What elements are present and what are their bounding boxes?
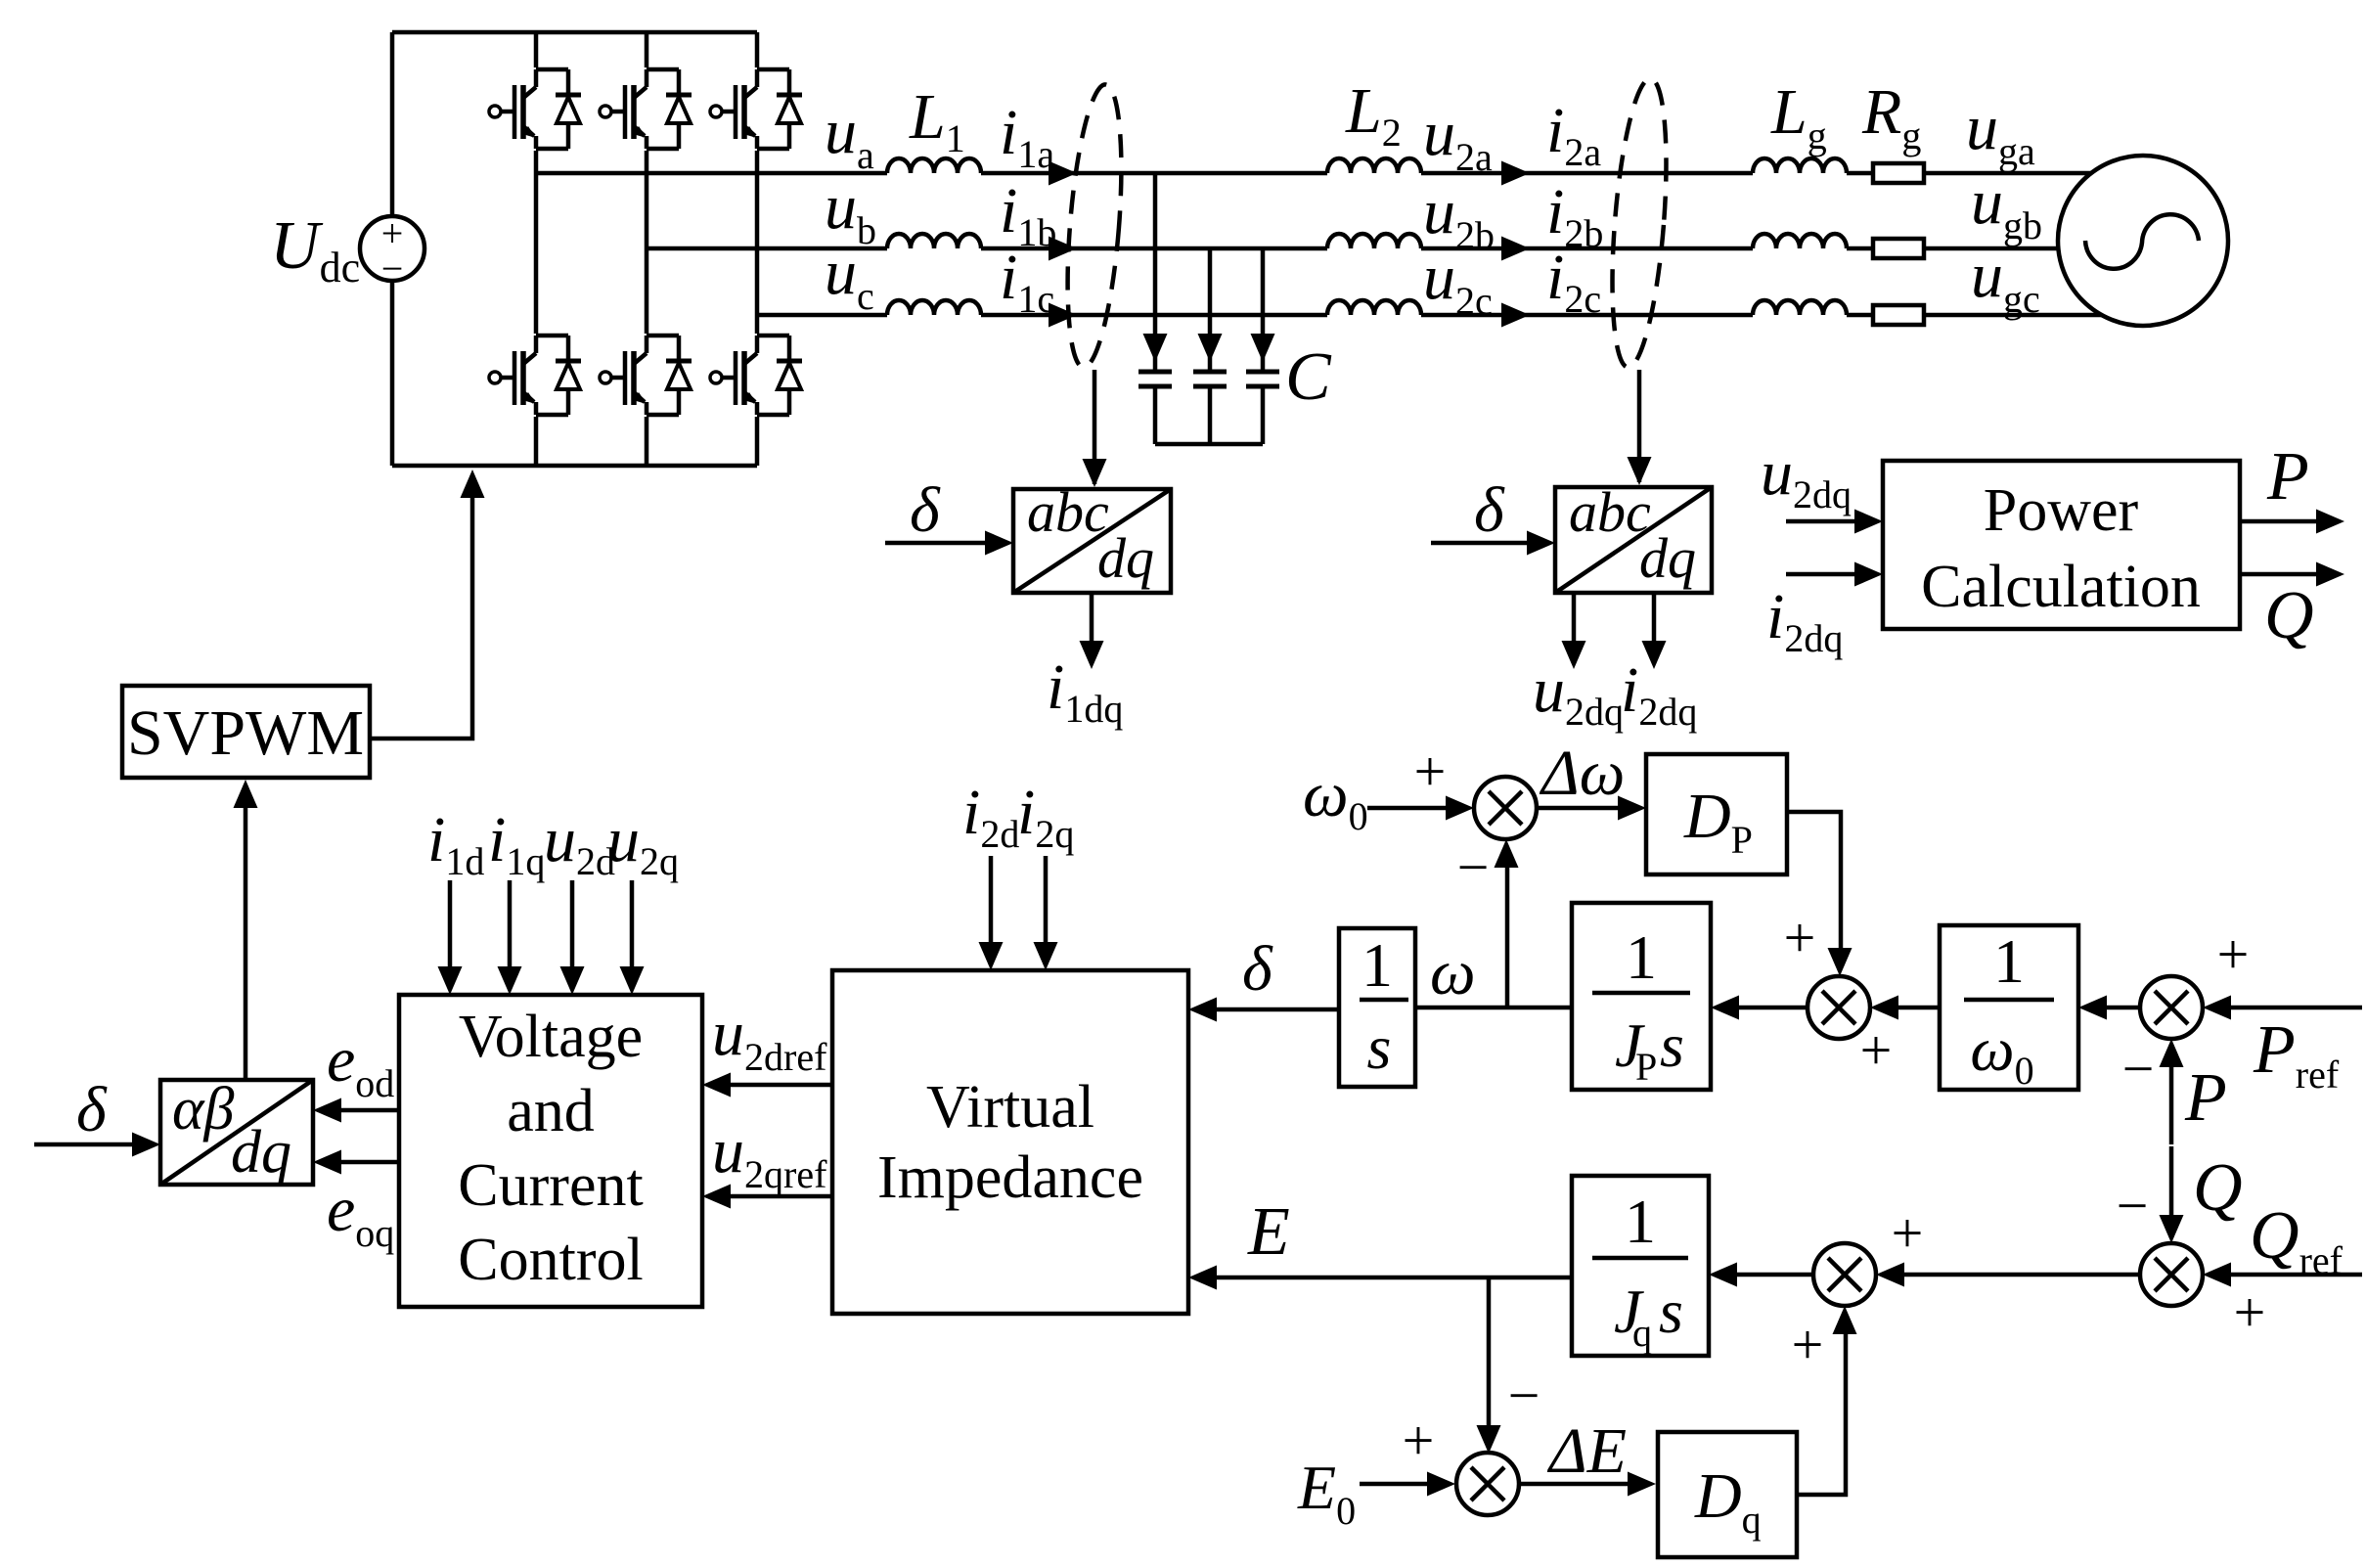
wire: u2q into VCC xyxy=(630,880,635,970)
block: Virtual Impedance xyxy=(832,970,1188,1314)
wire: DC bus bottom rail xyxy=(392,464,757,469)
wire: abc/dq 2 output u2dq xyxy=(1572,593,1577,663)
inductor L2 phase c xyxy=(1327,300,1421,315)
summing junction 1 (omega) xyxy=(1474,777,1537,839)
svg-text:+: + xyxy=(1860,1018,1893,1082)
wire: probe 2 tail xyxy=(1637,370,1642,482)
arrow i2dq into power calc xyxy=(1854,562,1883,587)
arrow omega0 into sum1 xyxy=(1446,796,1474,821)
wire: i1d into VCC xyxy=(448,880,453,970)
arrow i2b xyxy=(1501,237,1530,261)
arrow DP into sum2 xyxy=(1828,948,1853,976)
inductor Lg phase b xyxy=(1753,234,1847,248)
svg-text:+: + xyxy=(1403,1409,1435,1472)
wire: i2d into VI xyxy=(989,856,994,945)
svg-text:−: − xyxy=(2122,1037,2155,1100)
svg-text:+: + xyxy=(1784,906,1816,969)
arrow eoq xyxy=(313,1150,341,1175)
wire: sum4 to sum5 xyxy=(1901,1273,2140,1277)
block: Power Calculation xyxy=(1883,461,2240,629)
svg-text:dq: dq xyxy=(1639,526,1696,590)
wire: phase a line (L2 to Lg) xyxy=(1421,171,1753,176)
wire: DC bus top rail xyxy=(392,30,757,35)
svg-text:Voltage: Voltage xyxy=(459,1004,643,1070)
transistor S1 (top, leg a) with antiparallel diode xyxy=(489,67,581,151)
arrow i2a xyxy=(1501,161,1530,186)
inductor L1 phase b xyxy=(887,234,981,248)
wire: Q output xyxy=(2240,572,2319,577)
grid voltage source circle xyxy=(2058,156,2228,326)
transistor S3 (top, leg b) with antiparallel diode xyxy=(600,67,692,151)
svg-text:ΔE: ΔE xyxy=(1546,1415,1627,1487)
svg-text:δ: δ xyxy=(76,1074,108,1145)
arrow E into VI xyxy=(1188,1266,1217,1290)
wire: sum5 to 1/Jqs xyxy=(1734,1273,1813,1277)
wire: delta into abc/dq 2 xyxy=(1431,541,1530,546)
arrow Pref into sum3 xyxy=(2203,996,2231,1020)
arrow i2q xyxy=(1034,942,1058,970)
arrow delta into alpha-beta/dq xyxy=(132,1133,160,1157)
svg-text:Virtual: Virtual xyxy=(926,1074,1094,1141)
inductor L2 phase b xyxy=(1327,234,1421,248)
arrow probe 2 into abc/dq xyxy=(1628,457,1652,485)
wire: abc/dq 2 output i2dq xyxy=(1652,593,1657,663)
summing junction 2 xyxy=(1808,976,1870,1039)
svg-text:δ: δ xyxy=(1242,933,1273,1005)
inductor L1 phase a xyxy=(887,158,981,173)
wire: abc/dq 1 output xyxy=(1090,593,1094,663)
wire: i1q into VCC xyxy=(508,880,513,970)
arrow i1q xyxy=(498,966,522,995)
svg-text:P: P xyxy=(1635,1045,1657,1089)
wire: Q down into sum4 xyxy=(2169,1146,2174,1218)
arrow Q output xyxy=(2316,562,2344,587)
wire: probe 1 tail xyxy=(1093,370,1097,484)
arrow into Dq xyxy=(1628,1472,1656,1497)
wire: u2qref from VI to VCC xyxy=(728,1194,832,1199)
svg-text:Q: Q xyxy=(2193,1150,2243,1226)
arrow u2dref xyxy=(702,1073,731,1098)
svg-text:dq: dq xyxy=(231,1119,291,1186)
wire: Dq output up to sum5 xyxy=(1797,1331,1846,1495)
arrow abc/dq 2 output u2dq xyxy=(1562,641,1586,669)
arrow into 1/Jqs xyxy=(1709,1263,1737,1287)
svg-text:P: P xyxy=(2266,439,2309,515)
wire: capacitor branch a vertical xyxy=(1153,173,1158,371)
arrow i1d xyxy=(438,966,463,995)
svg-text:dq: dq xyxy=(1097,526,1154,590)
wire: i2q into VI xyxy=(1044,856,1049,945)
wire: u2dq into power calc xyxy=(1786,519,1857,524)
wire: Pref into sum3 xyxy=(2228,1006,2362,1010)
arrow i1b xyxy=(1049,237,1077,261)
svg-text:Current: Current xyxy=(458,1152,643,1219)
wire: eoq from VCC to alpha-beta/dq xyxy=(338,1160,399,1165)
arrow 1/omega0 into sum2 xyxy=(1870,996,1898,1020)
svg-text:q: q xyxy=(1632,1311,1652,1355)
alpha-beta/dq transform block xyxy=(160,1076,313,1186)
measurement ellipse 1 (dashed) xyxy=(1059,82,1131,369)
wire: i2dq into power calc xyxy=(1786,572,1857,577)
block: SVPWM xyxy=(122,686,370,778)
block 1/Jqs xyxy=(1572,1176,1709,1356)
wire: DC left rail lower xyxy=(390,281,395,466)
wire: inverter leg a xyxy=(534,32,539,466)
arrow u2q xyxy=(620,966,645,995)
arrow i2d xyxy=(979,942,1004,970)
wire: sum6 to Dq xyxy=(1519,1482,1632,1487)
capacitor C phase a xyxy=(1138,372,1172,444)
block Dq xyxy=(1658,1432,1797,1557)
wire: phase b line (L2 to Lg) xyxy=(1421,246,1753,251)
wire: omega line 1/JPs to 1/s xyxy=(1415,1006,1572,1010)
abc/dq transform block 2 xyxy=(1555,480,1712,593)
arrow sum4 into sum5 xyxy=(1876,1263,1904,1287)
arrow u2dq into power calc xyxy=(1854,510,1883,534)
wire: phase a line (L1 to L2) xyxy=(981,171,1327,176)
svg-text:ω: ω xyxy=(1430,937,1476,1008)
block: Voltage and Current Control xyxy=(399,995,702,1307)
arrow abc/dq 2 output i2dq xyxy=(1642,641,1667,669)
svg-text:δ: δ xyxy=(910,474,941,546)
block 1/JPs xyxy=(1572,903,1711,1090)
arrow i1a xyxy=(1049,161,1077,186)
resistor Rg phase b xyxy=(1873,239,1924,258)
wire: P up into sum3 xyxy=(2169,1064,2174,1144)
arrow delta into VI xyxy=(1188,998,1217,1022)
transistor S4 (bottom, leg a) with antiparallel diode xyxy=(489,334,581,417)
block 1/omega0 xyxy=(1940,925,2078,1093)
wire: phase c line (L2 to Lg) xyxy=(1421,313,1753,318)
abc/dq transform block 1 xyxy=(1013,480,1171,593)
wire: capacitor branch b vertical xyxy=(1208,248,1213,371)
wire: u2dref from VI to VCC xyxy=(728,1083,832,1088)
svg-text:Calculation: Calculation xyxy=(1921,554,2201,620)
inductor Lg phase c xyxy=(1753,300,1847,315)
wire: SVPWM output to bridge xyxy=(370,491,472,739)
arrow Q into sum4 xyxy=(2160,1215,2184,1243)
resistor Rg phase a xyxy=(1873,163,1924,183)
inductor L2 phase a xyxy=(1327,158,1421,173)
svg-text:αβ: αβ xyxy=(172,1076,235,1142)
inductor L1 phase c xyxy=(887,300,981,315)
wire: capacitor common bus xyxy=(1155,442,1263,447)
svg-text:+: + xyxy=(1414,739,1447,803)
resistor Rg phase c xyxy=(1873,305,1924,325)
svg-text:+: + xyxy=(2217,922,2250,986)
svg-text:+: + xyxy=(2234,1280,2266,1344)
svg-text:C: C xyxy=(1285,339,1332,415)
wire: inverter leg b xyxy=(645,32,649,466)
summing junction 5 xyxy=(1813,1243,1876,1306)
wire: phase b line (inverter to L1) xyxy=(647,246,887,251)
arrow i2c xyxy=(1501,303,1530,328)
svg-text:E: E xyxy=(1247,1194,1290,1270)
wire: phase a line (Lg to grid) xyxy=(1847,171,2093,176)
wire: omega feedback up to sum1 xyxy=(1505,865,1510,1008)
svg-text:SVPWM: SVPWM xyxy=(127,697,364,769)
svg-text:Δω: Δω xyxy=(1539,738,1625,809)
svg-text:Impedance: Impedance xyxy=(877,1144,1143,1211)
wire: sum1 to DP xyxy=(1537,806,1621,811)
wire: phase c line (Lg to grid) xyxy=(1847,313,2103,318)
wire: E from 1/Jqs to VI xyxy=(1214,1276,1572,1280)
wire: sum2 to 1/JPs xyxy=(1736,1006,1808,1010)
wire: capacitor branch c vertical xyxy=(1261,248,1266,371)
capacitor C phase b xyxy=(1193,372,1227,444)
summing junction 6 (E0) xyxy=(1456,1453,1519,1515)
svg-text:−: − xyxy=(381,246,404,291)
wire: delta from 1/s to VI xyxy=(1214,1008,1339,1012)
svg-text:−: − xyxy=(1508,1364,1540,1427)
transistor S2 (bottom, leg c) with antiparallel diode xyxy=(710,334,802,417)
wire: P output xyxy=(2240,519,2319,524)
svg-text:Power: Power xyxy=(1984,477,2139,544)
arrow E0 into sum6 xyxy=(1427,1472,1455,1497)
arrow into 1/JPs xyxy=(1711,996,1739,1020)
arrow probe 1 into abc/dq xyxy=(1083,459,1107,487)
svg-text:s: s xyxy=(1659,1277,1683,1346)
arrow i1c xyxy=(1049,303,1077,328)
summing junction 3 (P) xyxy=(2140,976,2203,1039)
svg-text:+: + xyxy=(1892,1201,1924,1265)
svg-text:1: 1 xyxy=(1993,926,2025,996)
inductor Lg phase a xyxy=(1753,158,1847,173)
wire: 1/omega0 to sum2 xyxy=(1896,1006,1940,1010)
wire: sum3 to 1/omega0 xyxy=(2104,1006,2140,1010)
arrow E feedback into sum6 xyxy=(1477,1425,1501,1454)
wire: phase a line (inverter to L1) xyxy=(536,171,887,176)
wire: phase b line (Lg to grid) xyxy=(1847,246,2060,251)
wire: delta into abc/dq 1 xyxy=(885,541,988,546)
wire: u2d into VCC xyxy=(570,880,575,970)
arrow Dq into sum5 xyxy=(1833,1306,1857,1334)
arrow u2qref xyxy=(702,1185,731,1209)
wire: omega0 into sum1 xyxy=(1367,806,1449,811)
svg-text:1: 1 xyxy=(1362,930,1393,1000)
svg-text:1: 1 xyxy=(1626,922,1657,992)
wire: phase c line (inverter to L1) xyxy=(757,313,887,318)
block 1/s xyxy=(1339,928,1415,1087)
summing junction 4 (Q) xyxy=(2140,1243,2203,1306)
arrow into SVPWM bottom xyxy=(234,780,258,808)
wire: E feedback down to sum6 xyxy=(1487,1277,1492,1428)
wire: Qref into sum4 xyxy=(2228,1273,2362,1277)
wire: alpha-beta/dq to SVPWM xyxy=(244,802,248,1080)
wire: delta into alpha-beta/dq xyxy=(34,1142,135,1147)
wire: inverter leg c xyxy=(755,32,760,466)
DC voltage source Udc circle xyxy=(360,211,424,291)
svg-text:1: 1 xyxy=(1625,1187,1656,1256)
arrow into DP xyxy=(1618,796,1646,821)
svg-text:s: s xyxy=(1660,1010,1684,1080)
wire: phase b line (L1 to L2) xyxy=(981,246,1327,251)
arrow u2d xyxy=(560,966,585,995)
wire: phase c line (L1 to L2) xyxy=(981,313,1327,318)
svg-text:+: + xyxy=(1792,1313,1824,1376)
wire: E0 into sum6 xyxy=(1360,1482,1430,1487)
arrow Qref into sum4 xyxy=(2203,1263,2231,1287)
transistor S6 (bottom, leg b) with antiparallel diode xyxy=(600,334,692,417)
measurement ellipse 2 (dashed) xyxy=(1603,76,1674,369)
wire: eod from VCC to alpha-beta/dq xyxy=(338,1108,399,1113)
svg-text:δ: δ xyxy=(1474,474,1505,546)
arrow SVPWM into bridge xyxy=(461,470,485,498)
wire: DC left rail upper xyxy=(390,32,395,216)
arrow P output xyxy=(2316,510,2344,534)
svg-text:−: − xyxy=(1457,835,1490,899)
arrow omega feedback into sum1 xyxy=(1495,839,1519,868)
arrow P into sum3 xyxy=(2160,1039,2184,1067)
svg-text:−: − xyxy=(2117,1174,2149,1237)
wire: DP output down to sum2 xyxy=(1787,812,1841,951)
svg-text:P: P xyxy=(2184,1060,2227,1136)
arrow delta into abc/dq 2 xyxy=(1527,531,1555,556)
arrow delta into abc/dq 1 xyxy=(985,531,1013,556)
svg-text:s: s xyxy=(1367,1012,1392,1082)
arrow sum3 into 1/omega0 xyxy=(2078,996,2107,1020)
arrow capacitor branch a xyxy=(1143,334,1168,362)
svg-text:and: and xyxy=(507,1078,595,1144)
capacitor C phase c xyxy=(1246,372,1279,444)
transistor S5 (top, leg c) with antiparallel diode xyxy=(710,67,802,151)
arrow capacitor branch b xyxy=(1198,334,1223,362)
svg-text:Q: Q xyxy=(2264,578,2314,653)
arrow abc/dq 1 output xyxy=(1080,641,1104,669)
block DP xyxy=(1646,754,1787,874)
arrow eod xyxy=(313,1098,341,1123)
arrow capacitor branch c xyxy=(1251,334,1275,362)
svg-text:Control: Control xyxy=(458,1227,643,1293)
